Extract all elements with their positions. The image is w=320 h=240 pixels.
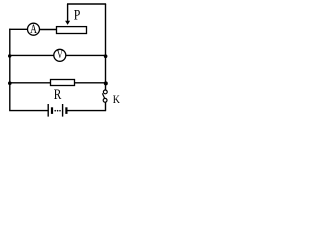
wire top row from left rail to ammeter [9, 28, 27, 30]
node junction left R row [8, 81, 12, 85]
battery long plate 1 [47, 104, 49, 117]
resistor R box [51, 80, 75, 86]
voltmeter V [54, 49, 66, 61]
battery short plate 2 [65, 107, 67, 114]
wire right rail upper [105, 4, 107, 90]
node junction right V row [104, 54, 108, 58]
switch K bottom terminal [103, 98, 107, 102]
battery dots [54, 110, 56, 112]
svg-text:R: R [54, 87, 62, 103]
wire resistor row [9, 82, 105, 84]
wire voltmeter row [9, 54, 105, 56]
wire slider top to right rail [67, 3, 106, 5]
battery [48, 104, 67, 117]
node junction right R row [104, 81, 108, 85]
wire left rail [9, 29, 11, 111]
wire switch bottom to bottom row [105, 102, 107, 110]
wire ammeter to rheostat box [40, 29, 57, 31]
rheostat slider arrowhead [65, 21, 70, 25]
svg-text:V: V [57, 49, 63, 61]
battery long plate 2 [62, 104, 64, 117]
switch K lever [102, 93, 104, 98]
wire battery to bottom right corner [67, 110, 106, 112]
wire bottom left to battery [9, 110, 48, 112]
wire rheostat slider stem [67, 4, 69, 21]
svg-text:P: P [74, 7, 81, 23]
svg-text:K: K [113, 94, 121, 106]
battery short plate 1 [51, 107, 53, 114]
rheostat box [57, 27, 87, 34]
node junction left V row [8, 54, 11, 57]
svg-text:A: A [30, 21, 37, 36]
ammeter A [28, 21, 40, 36]
switch K top terminal [103, 90, 107, 94]
